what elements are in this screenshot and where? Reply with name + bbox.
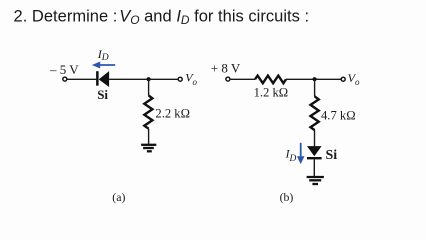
svg-text:4.7 kΩ: 4.7 kΩ — [321, 108, 356, 122]
svg-text:ID: ID — [285, 147, 297, 164]
resistor R2 1.2 kOhm zigzag — [255, 76, 286, 84]
wire resistor R3 to diode D2 — [314, 130, 316, 146]
wire junction down to resistor R3 — [314, 79, 316, 96]
node +8V input terminal — [226, 77, 230, 81]
wire diode D2 to ground — [313, 159, 315, 176]
svg-text:+ 8 V: + 8 V — [211, 61, 241, 76]
wire resistor to ground (a) — [148, 129, 150, 144]
node -5V input terminal — [63, 77, 67, 81]
resistor R3 4.7 kOhm zigzag — [311, 96, 319, 130]
diode D2 (Si), cathode bar — [307, 157, 322, 159]
svg-text:(b): (b) — [280, 190, 294, 204]
svg-text:Si: Si — [97, 87, 108, 102]
wire diode to junction — [109, 78, 149, 80]
ground (b) — [307, 177, 324, 184]
wire resistor R2 to Vo terminal — [286, 78, 341, 80]
node Vo terminal (a) — [178, 77, 182, 81]
node Vo terminal (b) — [341, 77, 345, 81]
resistor R1 2.2 kOhm zigzag — [144, 95, 152, 128]
wire terminal to resistor R2 — [230, 78, 255, 80]
junction node (b) — [313, 77, 317, 81]
svg-text:(a): (a) — [112, 190, 125, 204]
svg-text:2. Determine :: 2. Determine : — [14, 7, 118, 25]
current arrow ID (b) — [297, 143, 305, 164]
diode D1 (Si), cathode bar — [96, 71, 99, 86]
diode D2 (Si), triangle pointing down — [307, 146, 322, 156]
diode D1 (Si), triangle — [99, 71, 109, 87]
svg-text:VO and ID for this circuits :: VO and ID for this circuits : — [119, 7, 309, 27]
wire terminal to diode — [67, 78, 96, 80]
svg-text:Vo: Vo — [185, 71, 197, 87]
svg-text:Vo: Vo — [348, 71, 360, 87]
svg-text:ID: ID — [97, 47, 109, 63]
wire junction down to resistor — [148, 79, 150, 95]
svg-text:Si: Si — [326, 148, 338, 163]
svg-text:– 5 V: – 5 V — [49, 62, 79, 77]
junction node (a) — [147, 77, 151, 81]
current arrow ID (a) — [92, 62, 115, 69]
wire junction to Vo terminal — [149, 78, 179, 80]
svg-text:2.2 kΩ: 2.2 kΩ — [155, 107, 190, 121]
svg-text:1.2 kΩ: 1.2 kΩ — [254, 85, 289, 99]
ground (a) — [141, 145, 156, 152]
